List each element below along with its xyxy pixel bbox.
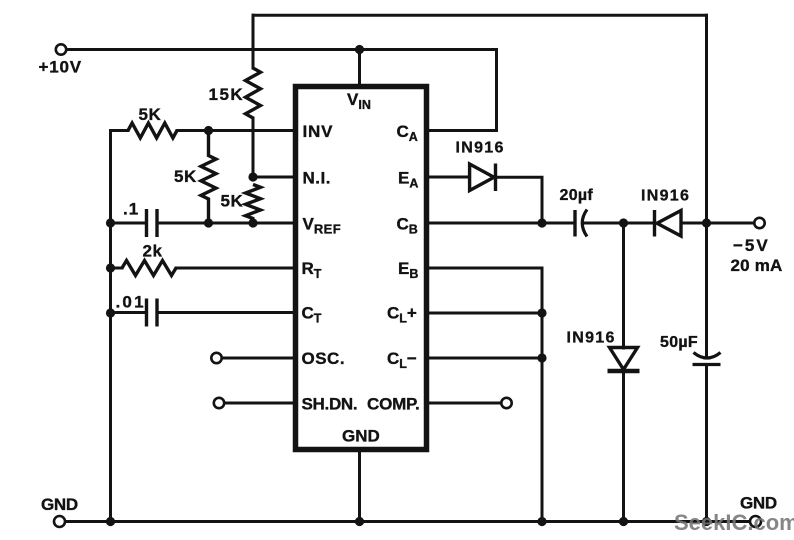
- wire +10V rail: [67, 48, 497, 51]
- terminal COMP: [501, 398, 511, 408]
- svg-text:2k: 2k: [143, 242, 163, 261]
- wire right rail upper: [705, 15, 708, 223]
- node rail left: [106, 517, 115, 526]
- capacitor C .1: [147, 209, 158, 237]
- svg-text:GND: GND: [342, 427, 380, 446]
- svg-text:50µF: 50µF: [660, 334, 698, 351]
- resistor R 5K third: [246, 185, 261, 219]
- node VREF divider2: [248, 218, 257, 227]
- svg-text:IN916: IN916: [456, 140, 505, 157]
- wire 20uf to diode: [584, 222, 654, 225]
- wire diode to output: [681, 222, 754, 225]
- svg-text:IN916: IN916: [567, 330, 616, 347]
- svg-text:OSC.: OSC.: [302, 349, 346, 368]
- node rail 50uF: [702, 517, 711, 526]
- svg-text:20 mA: 20 mA: [731, 256, 783, 275]
- wire N.I. pin stub: [253, 176, 294, 179]
- node rail EB: [537, 517, 546, 526]
- node rail IC gnd: [355, 517, 364, 526]
- resistor R 5K first: [128, 123, 177, 138]
- capacitor C 50uF curved plate: [694, 353, 721, 359]
- svg-text:INV: INV: [303, 122, 334, 141]
- svg-text:IN916: IN916: [641, 188, 690, 205]
- terminal -5V: [754, 218, 764, 228]
- capacitor C .01: [147, 299, 158, 327]
- wire top rail left drop: [252, 15, 255, 68]
- wire INV row to IC: [177, 129, 294, 132]
- svg-text:GND: GND: [41, 495, 78, 514]
- wire top rail: [253, 14, 707, 17]
- svg-text:N.I.: N.I.: [303, 169, 331, 188]
- wire CL+ stub: [429, 312, 542, 315]
- wire right rail to 50uF: [705, 223, 708, 358]
- svg-text:COMP.: COMP.: [367, 395, 420, 414]
- svg-text:15K: 15K: [209, 85, 245, 104]
- wire OSC stub: [222, 357, 294, 360]
- svg-text:5K: 5K: [139, 105, 162, 124]
- terminal OSC: [211, 353, 221, 363]
- wire RT row to IC: [176, 267, 294, 270]
- wire CB pin stub: [429, 222, 573, 225]
- resistor R 2k: [122, 261, 176, 276]
- capacitor C 50uF straight plate: [693, 363, 721, 366]
- wire INV row left rail corner: [111, 129, 129, 132]
- node output right rail: [702, 218, 711, 227]
- wire EA diode to corner: [497, 177, 542, 223]
- node CL-: [537, 353, 546, 362]
- diode D3 cathode bar: [608, 369, 640, 374]
- wire VIN stub: [358, 50, 361, 87]
- wire bottom GND rail: [66, 520, 751, 523]
- wire CT row to cap: [111, 311, 146, 314]
- svg-text:5K: 5K: [221, 192, 244, 211]
- svg-text:.01: .01: [116, 293, 146, 312]
- IC U1 box: [296, 87, 427, 450]
- resistor R 15K: [246, 68, 261, 118]
- wire shunt diode upper: [622, 223, 625, 348]
- wire CA pin stub: [429, 129, 497, 132]
- terminal SH.DN.: [214, 398, 224, 408]
- wire shunt diode lower: [622, 372, 625, 522]
- wire VREF row to cap: [111, 222, 146, 225]
- node CL+: [537, 308, 546, 317]
- svg-text:20µf: 20µf: [560, 187, 594, 204]
- wire CA feed down: [495, 50, 498, 131]
- svg-text:−5V: −5V: [733, 236, 770, 255]
- wire EB pin corner: [429, 268, 542, 522]
- capacitor C 20uf right plate: [582, 210, 587, 237]
- svg-text:.1: .1: [123, 200, 139, 219]
- svg-text:SeekIC.com: SeekIC.com: [674, 510, 794, 535]
- terminal GND right: [750, 516, 761, 527]
- wire 15K to N.I. node: [252, 118, 255, 177]
- node left rail RT row: [106, 263, 115, 272]
- diode D3 IN916 shunt: [610, 348, 638, 370]
- wire RT row left: [111, 267, 123, 270]
- wire IC GND stub: [358, 449, 361, 522]
- svg-text:5K: 5K: [174, 167, 197, 186]
- capacitor C 20uf left plate: [573, 210, 576, 237]
- terminal GND left: [54, 516, 65, 527]
- node left rail VREF row: [106, 218, 115, 227]
- wire COMP stub: [429, 402, 501, 405]
- diode D1 IN916: [470, 164, 494, 191]
- node rail shunt: [619, 517, 628, 526]
- node VIN tap: [355, 45, 364, 54]
- node VREF divider1: [204, 218, 213, 227]
- wire CL- stub: [429, 357, 542, 360]
- svg-text:+10V: +10V: [39, 58, 82, 77]
- node CB join: [537, 218, 546, 227]
- wire SH.DN. stub: [225, 402, 295, 405]
- diode D2 IN916 series: [657, 211, 681, 237]
- terminal +10V: [56, 44, 66, 54]
- wire left rail vertical: [109, 131, 112, 522]
- node N.I.: [248, 172, 257, 181]
- wire CT row cap to IC: [159, 311, 295, 314]
- node INV divider: [204, 126, 213, 135]
- wire VREF row cap to IC: [159, 222, 295, 225]
- diode D2 cathode bar: [653, 210, 656, 237]
- diode D1 cathode bar: [494, 164, 497, 192]
- wire 5K third to VREF row: [252, 219, 255, 224]
- node shunt tap: [619, 218, 628, 227]
- svg-text:SH.DN.: SH.DN.: [302, 395, 358, 414]
- node left rail CT row: [106, 308, 115, 317]
- resistor R 5K second: [201, 131, 216, 224]
- wire 50uF to rail: [705, 365, 708, 522]
- wire EA pin stub: [429, 176, 469, 179]
